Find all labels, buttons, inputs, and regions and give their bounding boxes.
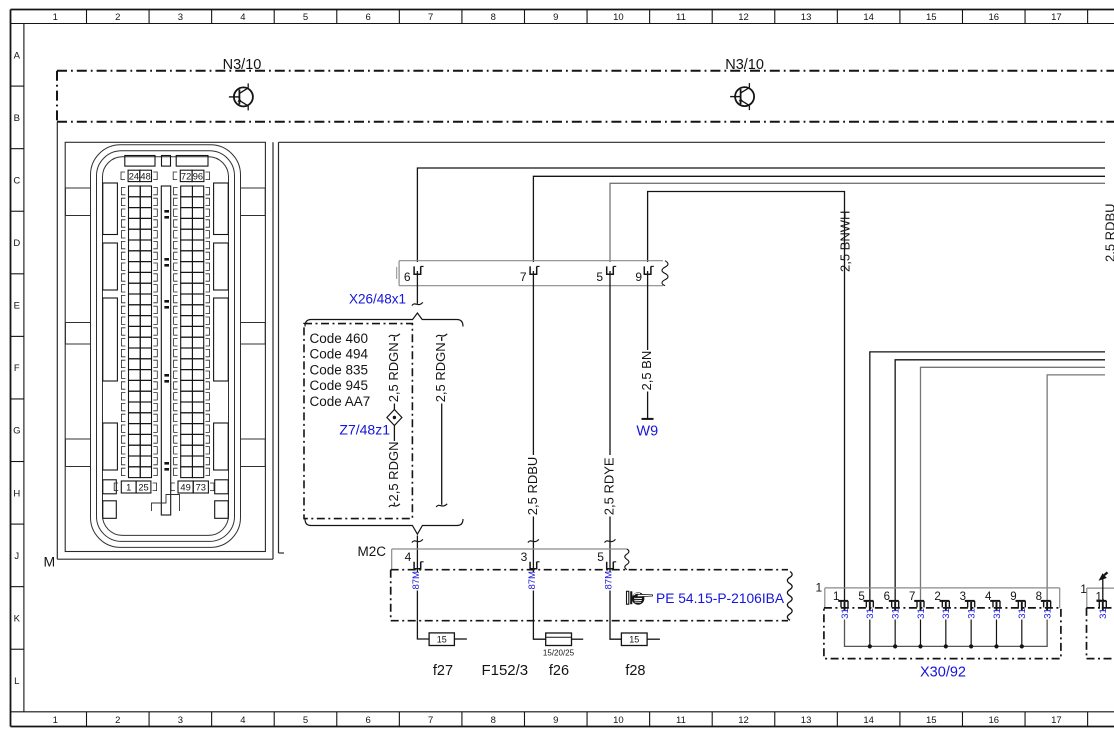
svg-text:H: H	[13, 488, 20, 499]
svg-text:31: 31	[1017, 608, 1028, 619]
svg-text:9: 9	[635, 270, 642, 284]
svg-text:7: 7	[428, 12, 433, 23]
ground bus in X30/92	[845, 620, 1048, 647]
svg-text:f27: f27	[433, 663, 453, 679]
svg-text:A: A	[14, 50, 21, 61]
svg-text:15: 15	[629, 635, 639, 645]
svg-text:87M: 87M	[604, 571, 615, 590]
svg-text:87M: 87M	[411, 571, 422, 590]
svg-text:16: 16	[989, 715, 1000, 726]
connector M2C box	[392, 549, 629, 570]
svg-text:6: 6	[404, 270, 411, 284]
X26 pin 7	[530, 266, 537, 274]
svg-text:31: 31	[941, 608, 952, 619]
svg-text:5: 5	[303, 12, 308, 23]
svg-text:1: 1	[126, 482, 131, 492]
svg-text:2,5 RDBU: 2,5 RDBU	[525, 457, 540, 516]
svg-text:25: 25	[138, 482, 148, 492]
wire pin stub to bus	[970, 620, 972, 647]
svg-text:12: 12	[738, 715, 749, 726]
svg-text:1,: 1,	[1096, 592, 1106, 604]
connector M pin grid	[114, 170, 214, 515]
X26 pin 9	[644, 266, 651, 274]
connector M bottom key step	[152, 495, 180, 512]
control unit M inner box	[65, 142, 265, 551]
svg-text:1: 1	[53, 12, 58, 23]
X30/92 pin 1	[838, 600, 848, 602]
wire to X30 pin6 from right edge	[895, 360, 1105, 601]
svg-text:72: 72	[181, 171, 191, 181]
wire to X30 pin5 from right edge	[870, 352, 1105, 601]
svg-text:X30/92: X30/92	[920, 665, 966, 681]
X26 pin 5	[607, 266, 614, 274]
svg-text:3: 3	[960, 591, 966, 603]
svg-text:K: K	[14, 613, 21, 624]
wire 2,5 RDYE X26 pin5 to M2C pin5	[609, 271, 611, 455]
wire pin stub to bus	[995, 620, 997, 647]
wire arrow into partial connector	[1099, 573, 1107, 581]
svg-text:31: 31	[865, 608, 876, 619]
svg-text:2,5 RDYE: 2,5 RDYE	[601, 457, 616, 515]
splice Z7/48z1	[387, 410, 402, 426]
svg-text:Code 460: Code 460	[310, 331, 369, 346]
svg-text:M: M	[44, 554, 56, 570]
svg-text:17: 17	[1051, 715, 1062, 726]
svg-text:E: E	[14, 301, 20, 312]
svg-text:D: D	[13, 238, 20, 249]
svg-text:13: 13	[801, 715, 812, 726]
X30/92 pin 4	[990, 600, 1000, 602]
fuse f26	[533, 621, 545, 640]
wire pin stub to bus	[1021, 620, 1023, 647]
control unit M outer outline	[57, 122, 273, 560]
svg-text:F152/3: F152/3	[481, 662, 528, 679]
svg-text:14: 14	[863, 715, 874, 726]
wire pin stub to bus	[945, 620, 947, 647]
wire X26 pin7 to right edge	[533, 176, 1105, 262]
svg-text:4: 4	[240, 12, 245, 23]
svg-text:f26: f26	[549, 663, 569, 679]
svg-text:2,5 BNWH: 2,5 BNWH	[837, 211, 852, 272]
partial connector box (dash-dot)	[1087, 608, 1114, 659]
svg-text:N3/10: N3/10	[725, 57, 764, 73]
ground terminal W9	[642, 418, 654, 420]
svg-text:31: 31	[1043, 608, 1054, 619]
branch brace (bottom)	[305, 519, 463, 534]
svg-text:W9: W9	[636, 424, 658, 440]
svg-text:G: G	[13, 426, 20, 437]
svg-text:2: 2	[934, 591, 940, 603]
X30/92 pin 2	[940, 600, 950, 602]
wire 2,5 BNWH X26 pin9 to X30/92 pin1	[648, 192, 845, 602]
svg-text:4: 4	[240, 715, 245, 726]
svg-text:L: L	[14, 676, 19, 687]
transistor Q1 in N3/10	[229, 83, 253, 110]
branch brace (top)	[305, 313, 463, 327]
wire X26 pin6 down to branch brace	[416, 271, 418, 304]
svg-text:14: 14	[863, 12, 874, 23]
code option box (dash-dot)	[304, 324, 412, 519]
svg-text:4: 4	[405, 550, 412, 564]
svg-text:8: 8	[491, 12, 496, 23]
svg-text:15: 15	[437, 635, 447, 645]
svg-text:C: C	[13, 175, 20, 186]
svg-text:1: 1	[1080, 582, 1087, 596]
connector X30/92 gray housing	[825, 588, 1060, 608]
svg-text:Code 835: Code 835	[310, 362, 369, 377]
svg-text:31: 31	[891, 608, 902, 619]
svg-text:5: 5	[858, 591, 864, 603]
wire pin stub to bus	[894, 620, 896, 647]
component outline right of M (cut)	[279, 142, 1106, 553]
svg-text:16: 16	[989, 12, 1000, 23]
svg-text:J: J	[14, 551, 19, 562]
svg-text:6: 6	[884, 591, 890, 603]
svg-text:31: 31	[840, 608, 851, 619]
svg-text:3: 3	[178, 12, 183, 23]
svg-text:7: 7	[428, 715, 433, 726]
wire 2,5 BN X26 pin9 to W9	[647, 271, 649, 350]
svg-text:11: 11	[676, 715, 686, 726]
svg-text:12: 12	[738, 12, 749, 23]
svg-text:9: 9	[1010, 591, 1016, 603]
svg-text:Code AA7: Code AA7	[310, 394, 371, 409]
svg-text:5: 5	[596, 270, 603, 284]
wire pin stub to bus	[869, 620, 871, 647]
svg-text:13: 13	[801, 12, 812, 23]
svg-text:15/20/25: 15/20/25	[543, 649, 575, 658]
M2C pin 4	[414, 562, 421, 569]
connector M middle keying marks	[164, 210, 169, 471]
svg-text:2: 2	[115, 715, 120, 726]
svg-text:49: 49	[180, 482, 190, 492]
X30/92 pin 8	[1041, 600, 1051, 602]
wire pin stub to bus	[919, 620, 921, 647]
wire brace to M2C pin 4	[416, 536, 418, 573]
connector X30/92 box (dash-dot)	[824, 608, 1061, 659]
svg-text:31: 31	[916, 608, 927, 619]
svg-text:3: 3	[178, 715, 183, 726]
connector X26/48x1 box	[397, 261, 668, 286]
X30/92 pin 7	[914, 600, 924, 602]
svg-text:8: 8	[491, 715, 496, 726]
svg-text:31: 31	[992, 608, 1003, 619]
svg-text:2,5 BN: 2,5 BN	[639, 351, 654, 391]
partial connector pin 1	[1097, 600, 1107, 602]
svg-text:11: 11	[676, 12, 686, 23]
svg-text:PE 54.15-P-2106IBA: PE 54.15-P-2106IBA	[656, 591, 785, 606]
svg-text:7: 7	[909, 591, 915, 603]
fuse box F152/3 (dash-dot)	[391, 570, 792, 621]
svg-text:10: 10	[613, 715, 624, 726]
svg-text:X26/48x1: X26/48x1	[349, 292, 406, 307]
svg-text:Code 945: Code 945	[310, 378, 369, 393]
X30/92 pin 5	[864, 600, 874, 602]
svg-text:N3/10: N3/10	[223, 57, 262, 73]
svg-text:73: 73	[196, 482, 206, 492]
svg-text:1: 1	[53, 715, 58, 726]
svg-text:2,5 RDGN: 2,5 RDGN	[386, 442, 401, 502]
svg-text:31: 31	[1098, 608, 1109, 619]
svg-text:3: 3	[521, 550, 528, 564]
wire branch 2 (2,5 RDGN)	[441, 337, 443, 341]
svg-text:9: 9	[553, 715, 558, 726]
X30/92 pin 6	[889, 600, 899, 602]
svg-text:5: 5	[597, 550, 604, 564]
svg-text:48: 48	[140, 171, 150, 181]
svg-text:Code 494: Code 494	[310, 347, 369, 362]
svg-text:10: 10	[613, 12, 624, 23]
wire branch 1 (2,5 RDGN) lower	[393, 425, 395, 442]
wire 2,5 RDBU X26 pin7 to M2C pin3	[532, 271, 534, 455]
svg-text:17: 17	[1051, 12, 1062, 23]
svg-text:31: 31	[967, 608, 978, 619]
wire X26 pin6 to right edge	[417, 168, 1105, 262]
svg-text:F: F	[14, 363, 20, 374]
svg-text:M2C: M2C	[357, 544, 386, 559]
svg-text:B: B	[14, 113, 20, 124]
svg-text:1: 1	[833, 591, 839, 603]
svg-text:5: 5	[303, 715, 308, 726]
fuse f27	[417, 621, 429, 639]
wire branch 1 (2,5 RDGN) upper	[393, 337, 395, 341]
X30/92 pin 9	[1016, 600, 1026, 602]
M2C pin 3	[530, 562, 537, 569]
connector face of control unit M	[66, 145, 266, 548]
transistor Q2 in N3/10	[730, 83, 754, 110]
wire X26 pin5 to right edge (gray)	[610, 183, 1105, 262]
svg-text:Z7/48z1: Z7/48z1	[339, 422, 390, 438]
pointing hand icon	[627, 591, 653, 604]
M2C pin 5	[607, 562, 614, 569]
code list text	[310, 331, 371, 409]
svg-text:2,5 RDGN: 2,5 RDGN	[386, 342, 401, 402]
wire to X30 pin8 from right edge (gray)	[1047, 375, 1105, 601]
wire to X30 pin7 from right edge (gray)	[920, 367, 1105, 601]
svg-text:7: 7	[520, 270, 527, 284]
svg-text:1: 1	[816, 581, 823, 595]
X30/92 pin 3	[965, 600, 975, 602]
svg-text:87M: 87M	[527, 571, 538, 590]
svg-text:15: 15	[926, 12, 937, 23]
X26 pin 6	[414, 266, 421, 274]
svg-text:6: 6	[365, 715, 370, 726]
svg-text:2: 2	[115, 12, 120, 23]
partial connector (cut at right edge) gray housing	[1087, 588, 1114, 608]
svg-text:2,5 RDBU: 2,5 RDBU	[1103, 203, 1114, 262]
svg-text:8: 8	[1036, 591, 1042, 603]
svg-text:4: 4	[985, 591, 992, 603]
control unit N3/10 box	[57, 71, 1114, 122]
svg-text:2,5 RDGN: 2,5 RDGN	[433, 342, 448, 402]
svg-text:f28: f28	[625, 663, 645, 679]
svg-text:6: 6	[365, 12, 370, 23]
fuse f28	[610, 621, 621, 640]
svg-text:9: 9	[553, 12, 558, 23]
svg-text:15: 15	[926, 715, 937, 726]
svg-text:24: 24	[129, 171, 139, 181]
svg-text:96: 96	[193, 171, 203, 181]
